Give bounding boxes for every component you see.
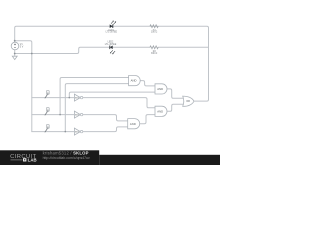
svg-text:http://circuitlab.com/c/qns47u: http://circuitlab.com/c/qns47uv: [43, 156, 90, 160]
svg-text:AND: AND: [157, 109, 163, 113]
svg-text:AND: AND: [157, 87, 163, 91]
svg-text:5 V: 5 V: [20, 47, 24, 49]
svg-text:LTL-307EE: LTL-307EE: [106, 32, 118, 34]
svg-text:330 Ω: 330 Ω: [151, 32, 157, 34]
svg-text:LTL-307EE: LTL-307EE: [105, 44, 117, 46]
svg-text:330 Ω: 330 Ω: [151, 53, 157, 55]
svg-text:AND: AND: [130, 122, 136, 126]
svg-text:AND: AND: [131, 79, 137, 83]
svg-text:krisham5312 / SKLOP: krisham5312 / SKLOP: [43, 150, 89, 155]
svg-text:LAB: LAB: [28, 158, 37, 163]
svg-text:OR: OR: [186, 100, 190, 103]
